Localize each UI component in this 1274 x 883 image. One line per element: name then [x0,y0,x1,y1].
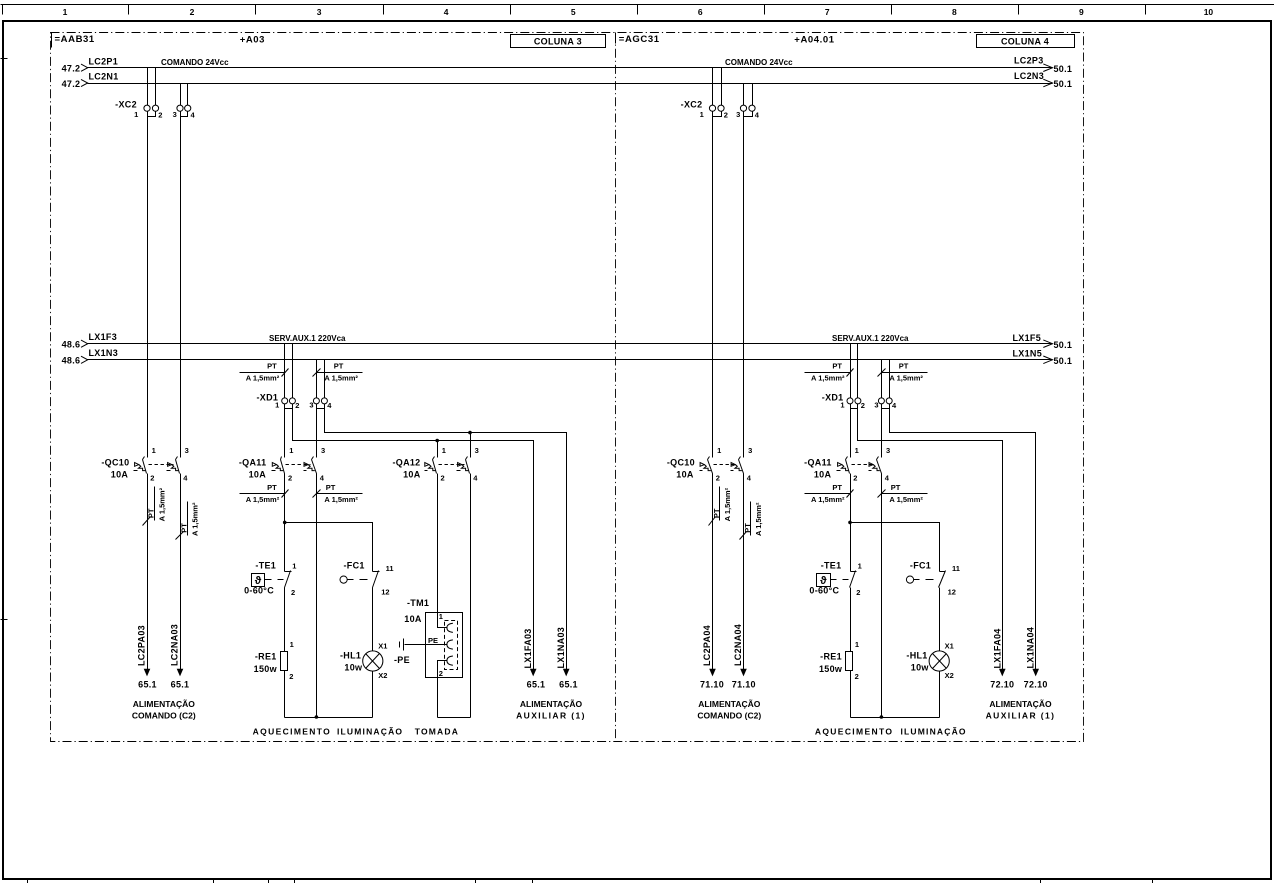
svg-text:COMANDO (C2): COMANDO (C2) [697,711,761,721]
svg-text:72.10: 72.10 [1024,680,1048,690]
wire gauge mark below QA11:4 [313,490,363,498]
wire QC10:4 down to arrow LC2NA04 [743,474,745,670]
terminal -XC2 pins 1-2 (left panel) [144,105,159,116]
svg-text:47.2: 47.2 [62,79,81,89]
node arrow destination 50.1 for LC2P3 [1043,64,1052,72]
svg-text:LX1N5: LX1N5 [1013,348,1043,358]
flow switch -FC1 contact (left panel) [373,571,380,588]
svg-text:A 1,5mm²: A 1,5mm² [246,495,280,504]
svg-text:48.6: 48.6 [62,339,81,349]
wire QA11:4 down to bottom rail (right) [881,474,883,718]
svg-text:10A: 10A [814,470,832,480]
svg-text:2: 2 [439,669,443,678]
svg-text:2: 2 [724,111,728,120]
svg-text:10A: 10A [249,470,267,480]
svg-text:10A: 10A [404,614,422,624]
svg-text:-QC10: -QC10 [667,457,695,467]
wire XD1:4 to LX1NA03 feeder (via QA12:3 tap) [325,404,567,670]
wire LC2N drop to XC2:3 (right) [743,84,745,106]
svg-text:6: 6 [698,7,703,17]
svg-text:PT: PT [267,362,277,371]
svg-text:2: 2 [190,7,195,17]
svg-text:10A: 10A [403,470,421,480]
wire bottom rail heating/lighting (right panel) [851,717,940,719]
terminal -XD1 pins 1-2 (left panel) [282,398,296,409]
wire QA12:2 down to TM1:1 [437,474,439,613]
svg-text:1: 1 [290,640,294,649]
svg-text:PT: PT [891,483,901,492]
svg-text:PT: PT [899,362,909,371]
lamp -HL1 10w (right panel) [929,651,949,671]
svg-text:PT: PT [712,508,721,518]
svg-text:A 1,5mm²: A 1,5mm² [191,502,200,536]
svg-text:=AAB31: =AAB31 [55,34,95,45]
wire XD1:4 to LX1NA04 feeder [890,404,1036,670]
socket contact TM1 earth [447,640,453,649]
svg-text:2: 2 [853,474,857,483]
svg-text:ALIMENTAÇÃO: ALIMENTAÇÃO [698,699,761,709]
svg-text:LX1N3: LX1N3 [89,348,119,358]
wire COMANDO drop to XC2:1 (right) [712,68,714,106]
circuit breaker -QA11 pole 3-4 (left panel) [304,457,317,474]
svg-text:3: 3 [886,446,890,455]
wire XD1:4 rise to LX1N rail [324,360,326,398]
circuit breaker -QC10 pole 1-2 (right panel) [700,457,713,474]
wire LX1N drop to XD1:3 (right) [881,360,883,398]
node junction QA11:2 / FC1 branch [283,521,287,525]
svg-text:10: 10 [1204,7,1214,17]
node arrow LX1NA04 down to 72.10 [1032,669,1039,677]
socket TM1 dashed enclosure [445,621,458,670]
mechanical link QC10 [149,464,174,466]
svg-text:2: 2 [861,401,865,410]
svg-text:2: 2 [295,401,299,410]
svg-text:-RE1: -RE1 [820,651,842,661]
node arrow source 47.2 for LC2N1 [81,79,88,86]
wire QA11:2 down to rail (heating branch) [284,474,286,572]
wire gauge mark PT A1,5mm2 on LC2PA03 [143,487,155,526]
wire gauge mark on XD1:3 feed (right) [878,369,928,377]
svg-text:LC2NA04: LC2NA04 [733,624,743,666]
label COLUNA 4 (title box) [977,35,1075,48]
wire HL1:X2 down to rail (right) [939,672,941,718]
svg-text:1: 1 [63,7,68,17]
svg-text:PT: PT [267,483,277,492]
svg-text:1: 1 [152,446,156,455]
node arrow destination 50.1 for LX1F5 [1043,340,1052,348]
mechanical link QA12 [439,464,465,466]
svg-text:10w: 10w [344,663,363,673]
circuit breaker -QA12 pole 1-2 [425,457,437,474]
svg-text:65.1: 65.1 [138,680,157,690]
svg-text:AQUECIMENTO: AQUECIMENTO [815,727,893,737]
svg-text:LC2NA03: LC2NA03 [169,624,179,666]
svg-text:A 1,5mm²: A 1,5mm² [324,373,358,382]
svg-text:-XC2: -XC2 [115,100,137,110]
node junction QA11:4 on bottom rail [315,715,319,719]
flow switch -FC1 actuator [340,576,368,583]
circuit breaker -QA11 pole 1-2 (left panel) [272,457,285,474]
wire gauge mark on XD1:3 feed [313,369,363,377]
svg-text:150w: 150w [819,664,843,674]
node arrow source 47.2 for LC2P1 [81,64,88,71]
wire TE1:2 down to RE1:1 (right) [850,588,852,652]
svg-text:-XD1: -XD1 [256,393,278,403]
svg-text:A 1,5mm²: A 1,5mm² [889,495,923,504]
svg-text:-TE1: -TE1 [255,561,276,571]
svg-text:2: 2 [150,474,154,483]
svg-text:3: 3 [748,446,752,455]
svg-text:0-60°C: 0-60°C [244,586,274,596]
node arrow LX1NA03 down to 65.1 [563,669,570,677]
socket outlet -TM1 box [426,613,463,678]
node junction QA12:1 tap [435,439,439,443]
wire TM1 pin1 internal [438,613,448,628]
svg-text:4: 4 [183,474,188,483]
svg-text:2: 2 [288,474,292,483]
svg-text:12: 12 [381,588,389,597]
svg-text:ILUMINAÇÃO: ILUMINAÇÃO [900,727,966,737]
svg-text:=AGC31: =AGC31 [619,34,660,45]
svg-text:-TE1: -TE1 [821,561,842,571]
svg-text:-PE: -PE [394,655,410,665]
wire gauge mark on XD1:1 feed (right) [805,369,854,377]
resistor -RE1 150w (left panel) [281,652,288,671]
svg-text:65.1: 65.1 [527,680,546,690]
flow switch -FC1 actuator (right) [906,576,933,583]
svg-text:SERV.AUX.1 220Vca: SERV.AUX.1 220Vca [269,334,346,343]
terminal -XD1 pins 3-4 (right panel) [878,398,892,409]
svg-text:PE: PE [428,636,438,645]
svg-text:+A03: +A03 [240,35,265,46]
wire bottom rail heating/lighting (left panel) [285,717,373,719]
svg-text:3: 3 [173,110,177,119]
wire XD1:3 down to QA11:3 (right) [881,404,883,458]
svg-text:A 1,5mm²: A 1,5mm² [889,373,923,382]
svg-text:-QA11: -QA11 [239,457,267,467]
svg-text:A 1,5mm²: A 1,5mm² [754,502,763,536]
node junction QA11:4 on bottom rail (right) [880,715,884,719]
svg-text:PT: PT [832,362,842,371]
svg-text:1: 1 [292,562,296,571]
svg-text:ALIMENTAÇÃO: ALIMENTAÇÃO [989,699,1052,709]
wire gauge mark PT on LC2PA04 [709,487,720,526]
svg-text:SERV.AUX.1 220Vca: SERV.AUX.1 220Vca [832,334,909,343]
svg-text:11: 11 [386,564,394,573]
label COLUNA 3 (title box) [511,35,606,48]
svg-text:-FC1: -FC1 [344,561,365,571]
node junction QA12:3 tap [468,431,472,435]
thermostat -TE1 sensor box (right) [817,574,831,587]
terminal -XD1 pins 1-2 (right panel) [847,398,861,409]
svg-text:-RE1: -RE1 [255,651,277,661]
svg-text:PT: PT [179,523,188,533]
svg-text:1: 1 [700,110,704,119]
svg-text:1: 1 [439,612,443,621]
svg-text:-XC2: -XC2 [681,100,703,110]
svg-text:LX1FA04: LX1FA04 [992,628,1002,668]
svg-text:65.1: 65.1 [559,680,578,690]
svg-text:PT: PT [146,508,155,518]
wire XD1:2 to LX1FA03 feeder (via QA12:1 tap) [293,404,534,670]
svg-text:-TM1: -TM1 [407,598,429,608]
svg-text:1: 1 [855,640,859,649]
lamp -HL1 10w (left panel) [363,651,383,671]
svg-text:COMANDO 24Vcc: COMANDO 24Vcc [161,58,229,67]
svg-text:50.1: 50.1 [1054,356,1073,366]
wire gauge mark below QA11:2 (right) [805,490,854,498]
socket contact TM1 neutral [447,656,453,665]
svg-text:A 1,5mm²: A 1,5mm² [811,373,845,382]
wire LC2N1/LC2N3 neutral rail (runs across both panels) [88,83,1053,85]
svg-text:AUXILIAR (1): AUXILIAR (1) [516,711,586,721]
svg-text:1: 1 [717,446,721,455]
wire RE1:2 down to rail [284,671,286,718]
svg-text:4: 4 [885,474,890,483]
svg-text:150w: 150w [254,664,278,674]
node arrow LC2NA03 down to 65.1 [177,669,184,677]
svg-text:LX1NA04: LX1NA04 [1026,627,1036,669]
svg-text:COMANDO 24Vcc: COMANDO 24Vcc [725,58,793,67]
svg-text:1: 1 [289,446,293,455]
svg-text:AUXILIAR (1): AUXILIAR (1) [986,711,1056,721]
svg-text:-HL1: -HL1 [340,651,361,661]
svg-text:4: 4 [755,111,760,120]
svg-text:COMANDO (C2): COMANDO (C2) [132,711,196,721]
node arrow destination 50.1 for LX1N5 [1043,356,1052,364]
svg-text:X1: X1 [378,641,387,650]
svg-text:5: 5 [571,7,576,17]
wire XD1:2 rise to SERV.AUX rail [292,344,294,398]
svg-text:48.6: 48.6 [62,356,81,366]
resistor -RE1 150w (right panel) [846,652,853,671]
svg-text:3: 3 [475,446,479,455]
circuit breaker -QC10 pole 3-4 (left panel) [167,457,180,474]
svg-text:A 1,5mm²: A 1,5mm² [158,487,167,521]
node junction QA11:2 / FC1 branch (right) [848,521,852,525]
svg-text:-FC1: -FC1 [910,561,931,571]
wire branch to FC1 (right) [851,523,940,572]
wire FC1:12 down to HL1:X1 [372,588,374,651]
svg-text:LX1FA03: LX1FA03 [523,628,533,668]
wire HL1:X2 down to rail [372,672,374,718]
wire LX1F3 / SERV.AUX.1 220Vca rail (runs across both panels) [88,343,1053,345]
svg-text:-QA11: -QA11 [804,457,832,467]
terminal -XD1 pins 3-4 (left panel) [313,398,327,409]
wire LC2P1 / COMANDO 24Vcc top rail (runs across both panels) [88,67,1053,69]
svg-text:LC2PA04: LC2PA04 [702,625,712,666]
wire LC2N1 drop to XC2:3 [180,84,182,106]
svg-text:2: 2 [716,474,720,483]
svg-text:1: 1 [442,446,446,455]
svg-text:2: 2 [441,474,445,483]
ground -PE earth symbol [400,639,404,651]
svg-text:4: 4 [327,401,332,410]
mechanical link QA11 [286,464,311,466]
svg-text:50.1: 50.1 [1054,340,1073,350]
wire gauge mark below QA11:4 (right) [878,490,928,498]
circuit breaker -QA12 pole 3-4 [457,457,470,474]
mechanical link QA11 (right) [852,464,876,466]
svg-text:-QA12: -QA12 [392,457,420,467]
wire QA12:4 down to rail [470,474,472,718]
svg-text:10A: 10A [676,470,694,480]
wire FC1:12 down to HL1:X1 (right) [939,588,941,651]
wire gauge mark below QA11:2 [240,490,289,498]
svg-text:71.10: 71.10 [700,680,724,690]
svg-text:8: 8 [952,7,957,17]
svg-text:-HL1: -HL1 [906,651,927,661]
wire gauge mark on XD1:1 feed [240,369,289,377]
wire XD1:1 down to QA11:1 (right) [850,404,852,458]
circuit breaker -QC10 pole 1-2 (left panel) [134,457,147,474]
svg-text:12: 12 [948,588,956,597]
panel boundary dash-dot box =AAB31/=AGC31 with divider [51,33,1084,742]
svg-text:4: 4 [320,474,325,483]
node arrow source 48.6 for LX1N3 [81,356,88,363]
svg-text:3: 3 [736,110,740,119]
svg-text:4: 4 [191,111,196,120]
wire QA11:2 down (heating branch right) [850,474,852,572]
wire RE1:2 down to rail (right) [850,671,852,718]
thermostat -TE1 contact (left panel) [285,571,292,588]
wire XC2:2 rise to rail (right) [721,68,723,106]
wire LX1N3 drop to XD1:3 [316,360,318,398]
wire LC2P1 drop to XC2:1 [147,68,149,106]
wire XC2:3 down to QC10:3 [180,112,182,458]
wire bottom rail TOMADA [438,717,471,719]
label =AGC31 (function designation, right panel) [616,33,660,46]
wire XC2:4 rise to LC2N rail [187,84,189,106]
svg-text:0-60°C: 0-60°C [809,586,839,596]
svg-text:A 1,5mm²: A 1,5mm² [246,373,280,382]
wire QA11:4 down to bottom rail [316,474,318,718]
circuit breaker -QA11 pole 3-4 (right panel) [869,457,882,474]
wire QC10:2 down to arrow LC2PA04 [712,474,714,670]
svg-text:3: 3 [317,7,322,17]
socket contact TM1 phase [447,623,453,632]
svg-text:10A: 10A [111,470,129,480]
svg-text:50.1: 50.1 [1054,64,1073,74]
svg-text:2: 2 [289,672,293,681]
thermostat -TE1 contact (right panel) [850,571,857,588]
svg-text:PT: PT [334,362,344,371]
svg-text:LC2N3: LC2N3 [1014,71,1044,81]
terminal -XC2 pins 3-4 (left panel) [177,105,191,116]
svg-text:3: 3 [309,400,313,409]
svg-text:LX1NA03: LX1NA03 [556,627,566,669]
label =AAB31 (function designation, left panel) [52,33,95,48]
node arrow source 48.6 for LX1F3 [81,340,88,347]
wire XD1:2 rise to rail (right) [857,344,859,398]
svg-text:ALIMENTAÇÃO: ALIMENTAÇÃO [520,699,583,709]
svg-text:-QC10: -QC10 [101,457,129,467]
wire XD1:2 to LX1FA04 feeder [858,404,1003,670]
svg-text:2: 2 [158,111,162,120]
thermostat -TE1 sensor box [252,574,265,587]
svg-text:47.2: 47.2 [62,63,81,73]
wire XC2:1 down to QC10:1 [147,112,149,458]
wire XD1:1 down to QA11:1 [284,404,286,458]
svg-text:3: 3 [874,400,878,409]
wire QC10:4 down to arrow LC2NA03 [180,474,182,670]
svg-text:1: 1 [858,562,862,571]
wire QA12:3 up to tap [470,433,472,458]
svg-text:1: 1 [855,446,859,455]
svg-text:9: 9 [1079,7,1084,17]
wire PE to TM1 earth contact [405,644,448,646]
svg-text:72.10: 72.10 [990,680,1014,690]
svg-text:1: 1 [134,110,138,119]
wire gauge mark PT A1,5mm2 on LC2NA03 [176,502,188,540]
svg-text:10w: 10w [911,663,930,673]
svg-text:PT: PT [743,523,752,533]
svg-text:65.1: 65.1 [171,680,190,690]
svg-text:PT: PT [832,483,842,492]
wire LX1N3/LX1N5 neutral rail (runs across both panels) [88,359,1053,361]
svg-text:4: 4 [444,7,449,17]
wire TE1:2 down to RE1:1 [284,588,286,652]
svg-text:LC2PA03: LC2PA03 [136,625,146,666]
svg-text:COLUNA 4: COLUNA 4 [1001,36,1049,46]
svg-text:-XD1: -XD1 [822,393,844,403]
svg-text:50.1: 50.1 [1054,79,1073,89]
svg-text:3: 3 [321,446,325,455]
svg-text:ILUMINAÇÃO: ILUMINAÇÃO [337,727,403,737]
wire LX1F drop to XD1:1 (right) [850,344,852,398]
svg-text:ALIMENTAÇÃO: ALIMENTAÇÃO [133,699,196,709]
svg-text:+A04.01: +A04.01 [794,35,834,46]
svg-text:2: 2 [855,672,859,681]
wire TM1 pin2 internal to rail [438,661,448,718]
terminal -XC2 pins 1-2 (right panel) [709,105,724,116]
mechanical link QC10 (right) [714,464,738,466]
wire XC2:1 down to QC10:1 (right) [712,112,714,458]
svg-text:4: 4 [747,474,752,483]
svg-text:COLUNA 3: COLUNA 3 [534,36,582,46]
flow switch -FC1 contact (right panel) [939,571,946,588]
svg-text:LC2P3: LC2P3 [1014,55,1044,65]
svg-text:4: 4 [892,401,897,410]
svg-text:LX1F3: LX1F3 [89,332,118,342]
svg-text:2: 2 [291,588,295,597]
svg-text:7: 7 [825,7,830,17]
svg-text:X1: X1 [945,641,954,650]
svg-text:TOMADA: TOMADA [415,727,459,737]
wire branch to FC1 [285,523,373,572]
wire gauge mark PT on LC2NA04 [740,502,751,540]
svg-text:A 1,5mm²: A 1,5mm² [811,495,845,504]
wire XC2:2 rise to COMANDO rail [155,68,157,106]
svg-text:3: 3 [185,446,189,455]
circuit breaker -QC10 pole 3-4 (right panel) [731,457,744,474]
wire QC10:2 down to arrow LC2PA03 [147,474,149,670]
wire XD1:3 down to QA11:3 [316,404,318,458]
wire QA12:1 up to tap [437,441,439,458]
svg-text:11: 11 [952,564,960,573]
wire XD1:4 rise to rail (right) [889,360,891,398]
node arrow LX1FA03 down to 65.1 [530,669,537,677]
terminal -XC2 pins 3-4 (right panel) [740,105,755,116]
svg-text:2: 2 [856,588,860,597]
node arrow LC2NA04 down to 71.10 [740,669,747,677]
node arrow LC2PA04 down to 71.10 [709,669,716,677]
svg-text:4: 4 [473,474,478,483]
svg-text:LC2N1: LC2N1 [89,72,119,82]
svg-text:PT: PT [326,483,336,492]
svg-text:X2: X2 [378,671,387,680]
svg-text:A 1,5mm²: A 1,5mm² [324,495,358,504]
